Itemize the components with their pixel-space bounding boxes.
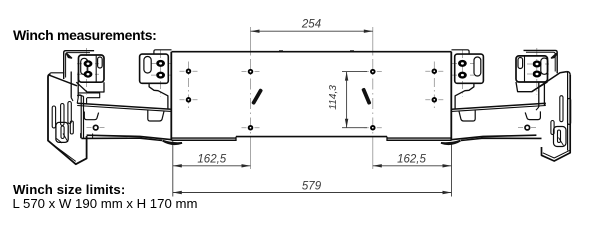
dim 114,3 line + extensions [342,72,367,128]
right rail tab A [525,111,540,119]
foot blob left [163,141,183,145]
plate hole A1 [186,68,192,74]
right side plate top corner fold [567,72,570,75]
rail bottom edge [87,135,172,140]
side plate strip edges [71,72,78,98]
inner clamp hole 2 [156,72,165,79]
arrowheads 114,3 [345,72,348,81]
dim 162,5 left line [173,165,251,167]
plate bottom edge middle section [236,136,387,138]
plate hole C2 [370,125,376,131]
inner clamp front box [140,54,169,83]
dim 254 line [251,30,373,32]
centerline column x=188.5 [188,62,190,110]
right outer clamp back plate [524,50,558,73]
inner clamp hole 2 center [159,74,162,76]
plate top edge [172,51,452,53]
clamp centerlines left [87,48,161,97]
svg-text:254: 254 [301,18,321,30]
plate hole B2 [248,125,254,131]
clamp centerlines right [462,48,536,97]
plate bottom edge left section (double) [172,137,237,139]
extension line left end [172,141,174,197]
outer clamp strap slot [81,58,88,74]
plate bottom step left [235,137,237,141]
outer clamp side band slot [98,57,103,68]
side plate right shelf [78,93,100,98]
dim 579 line [173,192,452,194]
inner clamp gusset [149,84,168,109]
arrowheads 579 [173,191,182,194]
title: Winch size limits [13,182,125,197]
right U bracket slot [558,130,561,143]
plate top bump right [350,50,354,52]
foot blob right [441,141,461,145]
right rail bottom edge [451,135,536,140]
text: L 570 x W 190 mm x H 170 mm [13,196,198,211]
right rail top edge line 2 [452,106,546,112]
plate top bump left [279,50,283,52]
right outer clamp side band slot [518,58,523,69]
outer clamp hole 1 [84,60,93,67]
right outer clamp strap slot [541,58,548,74]
right rail bottom lip [461,138,542,140]
right strip foot [536,104,546,111]
side plate top flange line [49,73,65,75]
right rail tab B [459,110,475,121]
plate left edge [170,52,172,141]
side plate top diagonal [49,75,77,86]
plate right edge [450,52,452,141]
right outer clamp hole 1 center [536,63,539,65]
side plate strip to rail join [71,98,86,104]
svg-text:114,3: 114,3 [328,85,339,110]
arrowheads 162,5 left [173,164,182,167]
side plate hook top [77,95,84,96]
right rail hole [525,125,530,130]
right outer clamp hole 2 [533,71,542,78]
right side plate slot 2 [568,98,571,124]
outer clamp gusset [76,82,104,92]
rail hole left [93,125,98,130]
outer clamp back corner notch [67,54,72,59]
right side plate slot 3 [551,121,554,135]
side plate small slot [70,121,73,134]
plate hole D2 [432,97,438,103]
outer clamp back plate [64,51,94,79]
extension line right end [451,143,453,197]
svg-text:162,5: 162,5 [197,154,226,166]
right rail top edge line 1 [452,103,546,109]
hole cross dashes plate holes [180,70,198,72]
rail tab A [84,112,98,120]
right inner clamp hole 1 center [461,62,464,64]
right U bracket outline [554,127,567,147]
slanted slot right [361,87,371,105]
plate bottom step right [386,137,388,141]
rail top edge line 2 [77,106,171,112]
right inner clamp strap slot [474,57,481,76]
inner clamp back plate [154,50,172,54]
rail top edge line 1 [77,103,171,109]
side plate slot 1 [52,106,55,128]
right outer clamp hole 2 center [536,73,539,75]
arrowheads 254 [251,30,260,33]
title: Winch measurements [13,27,157,43]
right side plate top edge [532,72,567,92]
inner clamp strap slot [144,57,151,74]
right inner clamp front box [455,54,484,83]
plate hole A2 [186,97,192,103]
right outer clamp front box [516,56,548,82]
slanted slot left [251,88,263,105]
right outer clamp hole 1 [533,61,542,68]
svg-text:579: 579 [302,180,322,192]
right inner clamp back plate [452,50,470,54]
dim 162,5 right line [373,165,452,167]
plate hole C1 [370,69,376,75]
right outer clamp back corner notch [552,54,557,59]
outer clamp front box [79,55,105,82]
right inner clamp gusset [455,84,474,109]
right side plate right edge inner [566,72,569,151]
right U bracket hatch [559,138,564,146]
right inner clamp hole 2 center [461,74,464,76]
outer clamp back plate inner line [66,53,90,78]
centerline column x=250.5 (extension to dims) [250,27,252,54]
plate bottom edge right section (double) [387,137,452,139]
right inner clamp hole 1 [458,60,467,67]
side plate slot 2 [61,104,64,126]
rail tab B [148,110,164,121]
right outer clamp side band line [524,56,526,82]
inner clamp hole 1 [156,60,165,67]
U bracket slot [61,126,64,139]
side plate outline [48,74,87,164]
right strip edges [539,82,545,107]
centerline column x=434.3 [433,62,435,110]
right side plate slot 1 [560,96,563,122]
rail hole dashes [87,127,105,129]
arrowheads 162,5 right [373,164,382,167]
outer clamp hole 2 [84,71,93,78]
outer clamp hole 2 center [87,73,90,75]
outer clamp side band line [95,56,97,82]
side flange double vertical [77,95,83,139]
plate hole B1 [248,69,254,75]
rail bottom lip [82,138,163,140]
right side plate right edge outer [542,75,571,161]
side plate bottom inner line [50,142,76,161]
right side plate bottom inner line [543,150,570,158]
right outer clamp back plate inner line [526,52,555,71]
centerline column x=372.8 (extension to dims) [372,27,374,54]
rail bottom small step rect [81,133,93,138]
right inner clamp hole 2 [458,72,467,79]
U bracket outline [56,122,68,142]
outer clamp hole 1 center [87,63,90,65]
right outer clamp gusset [516,82,548,92]
inner clamp hole 1 center [159,62,162,64]
svg-text:162,5: 162,5 [397,154,426,166]
side plate slot 3 [68,102,71,124]
plate hole D1 [432,68,438,74]
U bracket hatch [57,134,69,144]
